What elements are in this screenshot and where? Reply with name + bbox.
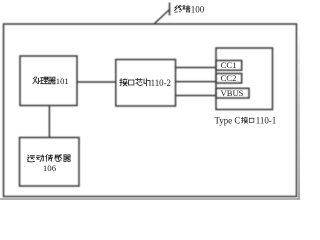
svg-text:110-1: 110-1 bbox=[256, 116, 276, 126]
label 处理器101 bbox=[33, 76, 69, 86]
wire processor to motion sensor bbox=[48, 106, 50, 138]
CC2 pin box bbox=[216, 74, 242, 84]
processor box 处理器101 bbox=[20, 56, 77, 106]
leader line to label 终端100 bbox=[154, 10, 170, 25]
CC1 pin box bbox=[216, 61, 242, 71]
wire processor to interface chip bbox=[77, 81, 116, 83]
wire chip to CC1 bbox=[176, 67, 217, 69]
interface chip box 接口芯片110-2 bbox=[116, 60, 176, 107]
svg-text:CC1: CC1 bbox=[221, 60, 237, 70]
svg-text:110-2: 110-2 bbox=[151, 78, 171, 88]
svg-text:CC2: CC2 bbox=[221, 73, 237, 83]
label 接口芯片110-2 bbox=[120, 78, 171, 88]
wire chip to CC2 bbox=[176, 81, 217, 83]
label 终端100 bbox=[175, 4, 205, 14]
outer terminal boundary rect bbox=[4, 24, 297, 197]
svg-text:101: 101 bbox=[56, 76, 69, 86]
label 运动传感器 bbox=[28, 154, 71, 161]
page edge shadow bottom bbox=[0, 198, 300, 200]
label Type C接口110-1 bbox=[215, 116, 277, 126]
wire chip to VBUS bbox=[176, 95, 217, 97]
motion sensor box 运动传感器106 bbox=[20, 138, 80, 187]
Type C connector outer box 110-1 bbox=[216, 48, 273, 110]
svg-text:Type C: Type C bbox=[215, 116, 241, 126]
page edge shadow right bbox=[298, 30, 300, 200]
svg-text:100: 100 bbox=[191, 4, 205, 14]
svg-text:VBUS: VBUS bbox=[221, 88, 244, 98]
leader tick bbox=[169, 3, 171, 16]
svg-text:106: 106 bbox=[43, 163, 57, 173]
VBUS pin box bbox=[216, 88, 249, 98]
